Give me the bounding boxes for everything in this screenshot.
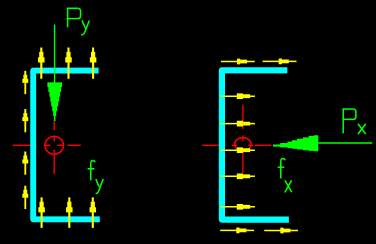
label P (left): [68, 8, 81, 27]
label x subscript of P: [358, 124, 366, 134]
wire right vertical centerline: [242, 105, 244, 174]
arrow up web 4: [22, 186, 28, 209]
arrow up top-flange 3: [90, 48, 96, 79]
arrow right bottom-flange 2: [264, 228, 298, 234]
node shear-center left: circle: [45, 137, 64, 155]
arrow right top-flange 2: [263, 59, 297, 65]
arrow right web 2: [221, 121, 255, 127]
channel section right: [222, 70, 289, 219]
arrow right web 5: [221, 204, 255, 210]
label y subscript of f: [96, 179, 104, 193]
node shear-center right: circle: [235, 138, 251, 151]
wire left vertical centerline: [53, 121, 55, 174]
wire Py force line: [54, 25, 56, 83]
label y subscript of P: [81, 21, 89, 35]
label f (right): [278, 159, 286, 179]
arrow up web 1: [22, 71, 28, 94]
arrow right bottom-flange 1: [220, 228, 254, 234]
arrow right web 3: [221, 147, 255, 153]
wire left horizontal centerline: [13, 144, 81, 146]
arrow up web 2: [22, 109, 28, 132]
arrow right web 4: [221, 173, 255, 179]
arrow Px head: [273, 135, 318, 151]
arrow Py head: [47, 82, 62, 121]
arrow up web 3: [22, 152, 28, 175]
arrow up bottom-flange 3: [90, 197, 96, 227]
arrow right top-flange 1: [221, 59, 255, 65]
label P (right): [343, 109, 356, 133]
channel section left: [33, 71, 100, 220]
label f (left): [88, 161, 96, 181]
arrow up bottom-flange 1: [38, 197, 45, 227]
arrow up top-flange 2: [65, 48, 71, 79]
label x subscript of f: [285, 180, 292, 192]
wire Px force line: [318, 142, 372, 144]
arrow right web 1: [221, 93, 255, 99]
arrow up top-flange 1: [38, 48, 45, 79]
arrow up bottom-flange 2: [66, 197, 72, 227]
wire right horizontal centerline: [202, 144, 271, 146]
